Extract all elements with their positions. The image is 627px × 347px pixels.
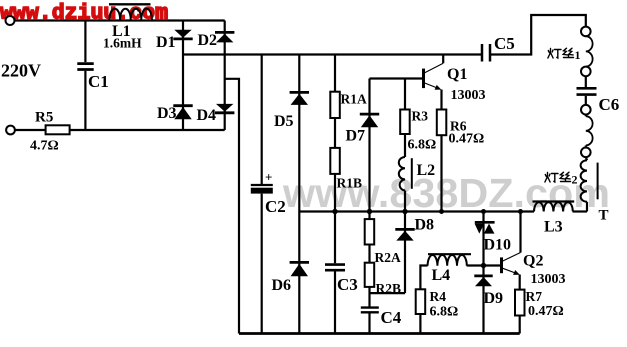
svg-text:D8: D8 <box>415 217 435 234</box>
wire bridge left column D1 D3 <box>182 21 184 131</box>
svg-text:R4: R4 <box>430 289 447 304</box>
svg-text:R1A: R1A <box>341 92 367 107</box>
diode D9 <box>474 276 492 286</box>
inductor L2 <box>399 157 412 191</box>
svg-text:D9: D9 <box>484 290 504 307</box>
capacitor C3 <box>325 265 345 271</box>
svg-text:6.8Ω: 6.8Ω <box>408 138 437 153</box>
resistor R2B <box>365 263 375 287</box>
diac D10 <box>475 222 495 233</box>
capacitor C5 <box>482 44 490 62</box>
wire bottom rail <box>239 332 520 335</box>
wire D10 D9 column <box>482 212 484 334</box>
svg-text:13003: 13003 <box>451 88 486 103</box>
svg-text:R3: R3 <box>412 109 429 124</box>
capacitor C6 <box>577 88 597 94</box>
label lamp filament 2 dengsi2 <box>545 172 571 182</box>
lamp filament2 coil <box>586 116 593 145</box>
diode D1 <box>173 30 192 39</box>
transistor Q2 <box>502 212 521 275</box>
wire L4 left to R4 <box>420 266 427 334</box>
wire D5 D6 column <box>298 55 300 334</box>
lamp filament1 pin top <box>581 27 591 37</box>
svg-text:R1B: R1B <box>337 176 363 191</box>
svg-text:1.6mH: 1.6mH <box>103 36 142 51</box>
svg-text:D5: D5 <box>274 113 294 130</box>
diode D6 <box>290 262 309 276</box>
svg-text:C4: C4 <box>381 308 402 327</box>
wire mid rail half bridge output <box>299 210 534 212</box>
lamp filament1 pin bottom <box>581 67 591 77</box>
svg-text:L4: L4 <box>432 267 451 284</box>
diode D8 <box>395 229 414 240</box>
inductor L3 <box>533 202 575 212</box>
capacitor C4 <box>361 308 379 313</box>
svg-text:L2: L2 <box>417 162 436 179</box>
diode D4 <box>215 104 234 113</box>
svg-text:R7: R7 <box>526 289 543 304</box>
wire top AC1 <box>15 19 225 21</box>
terminal input bottom <box>6 126 15 135</box>
lamp filament2 pin bottom <box>581 148 591 158</box>
svg-text:D10: D10 <box>484 237 512 254</box>
svg-text:0.47Ω: 0.47Ω <box>449 132 485 147</box>
wire negative stub and drop <box>225 79 239 334</box>
terminal input top <box>6 16 15 25</box>
svg-text:C1: C1 <box>88 72 109 91</box>
wire lamp column segments <box>585 35 587 38</box>
svg-text:4.7Ω: 4.7Ω <box>30 139 59 154</box>
resistor R4 <box>416 289 426 314</box>
wire C2 column <box>261 55 263 185</box>
lamp filament2 pin top <box>581 105 591 115</box>
inductor L4 <box>428 254 471 266</box>
lamp filament1 coil <box>586 36 593 66</box>
diode D2 <box>215 32 234 42</box>
junction dots <box>332 209 523 268</box>
svg-text:220V: 220V <box>1 61 41 81</box>
wire D8 to R2B link <box>370 292 406 294</box>
capacitor C1 <box>77 64 93 70</box>
svg-text:0.47Ω: 0.47Ω <box>528 304 564 319</box>
wire R3 L2 D8 column <box>404 79 406 158</box>
svg-text:D6: D6 <box>272 277 292 294</box>
capacitor C2 electrolytic <box>251 170 273 194</box>
resistor R6 <box>437 110 447 136</box>
svg-text:D2: D2 <box>198 32 218 49</box>
svg-text:Q1: Q1 <box>447 66 467 83</box>
transistor Q1 <box>424 55 444 90</box>
svg-text:6.8Ω: 6.8Ω <box>430 305 459 320</box>
svg-text:T: T <box>599 208 609 224</box>
wire Q1 base line <box>370 77 423 79</box>
resistor R3 <box>400 110 410 135</box>
wire C5 right to lamp top <box>490 15 586 55</box>
svg-text:13003: 13003 <box>531 272 566 287</box>
svg-text:+: + <box>265 170 272 185</box>
svg-text:C5: C5 <box>494 34 515 53</box>
transformer T winding <box>581 160 598 202</box>
wire R7 column <box>519 275 521 334</box>
svg-text:D4: D4 <box>197 107 217 124</box>
svg-text:1: 1 <box>575 48 581 62</box>
svg-text:L3: L3 <box>544 219 563 236</box>
wire R1A R1B C3 column <box>334 55 336 264</box>
wire bridge right column D2 D4 <box>224 21 226 131</box>
resistor R2A <box>365 219 375 244</box>
svg-text:R2A: R2A <box>375 250 401 265</box>
svg-text:D3: D3 <box>157 105 177 122</box>
svg-text:C3: C3 <box>337 275 358 294</box>
svg-text:Q2: Q2 <box>523 253 543 270</box>
inductor L1 <box>109 4 152 19</box>
wire bottom AC2 <box>15 129 46 131</box>
wire positive rail <box>183 53 482 55</box>
svg-text:C2: C2 <box>265 197 286 216</box>
diode D3 <box>173 106 192 120</box>
svg-text:2: 2 <box>572 173 578 187</box>
wire Q2 base line <box>467 264 501 266</box>
wire C1 column <box>84 21 86 63</box>
svg-text:R2B: R2B <box>376 281 402 296</box>
resistor R7 <box>515 290 525 316</box>
resistor R1B <box>330 148 340 174</box>
svg-text:C6: C6 <box>599 95 620 114</box>
diode D5 <box>290 92 309 105</box>
wire D7 R2A R2B column <box>368 79 370 307</box>
diode D7 <box>360 114 379 127</box>
resistor R5 <box>46 125 70 134</box>
svg-text:R5: R5 <box>35 110 53 126</box>
label lamp filament 1 dengsi1 <box>548 48 574 58</box>
svg-text:D1: D1 <box>156 34 176 51</box>
wire R6 emitter column <box>440 90 442 212</box>
svg-text:D7: D7 <box>346 128 366 145</box>
resistor R1A <box>330 92 340 118</box>
